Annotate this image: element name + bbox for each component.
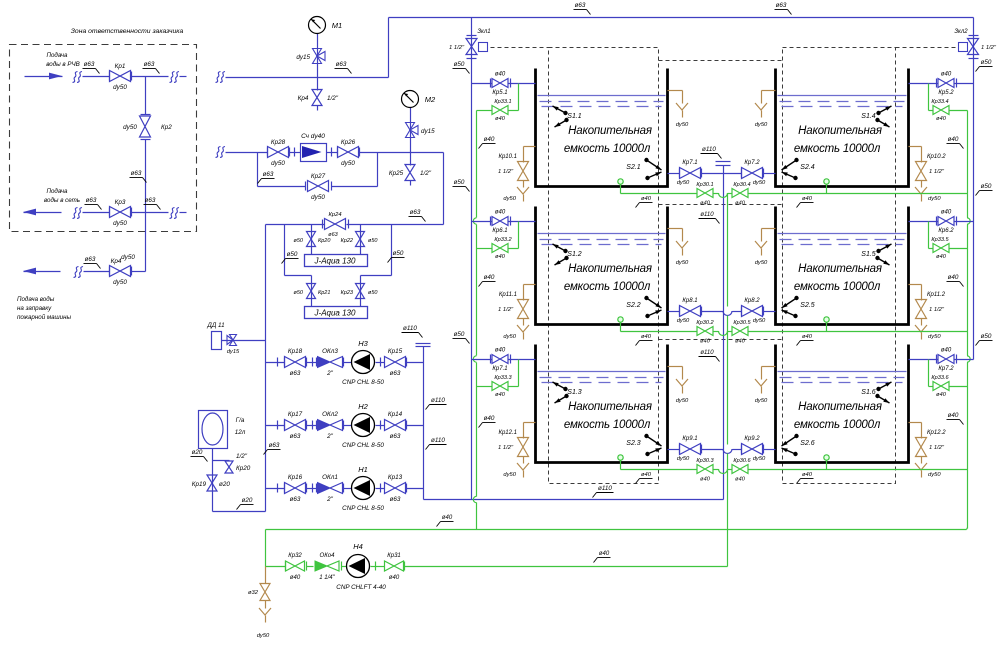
flange: [284, 358, 286, 367]
svg-text:S2.3: S2.3: [626, 440, 641, 447]
drain stub left Кр11.1: [524, 284, 536, 286]
valve Кр13: [385, 483, 406, 494]
flange: [312, 484, 314, 493]
valve Кр27: [308, 181, 329, 192]
wire bottom drain collector y529: [266, 529, 967, 531]
flex joint center riser: [716, 161, 731, 163]
svg-text:ø63: ø63: [84, 61, 95, 68]
svg-text:dy50: dy50: [755, 260, 768, 266]
wire stub: [410, 181, 412, 186]
wire drain row right part: [749, 469, 827, 471]
flow arrow fire truck: [24, 271, 61, 273]
wire to network: [83, 212, 110, 214]
valve Кр5.1: [492, 79, 508, 88]
valve Кр9.2: [742, 444, 763, 455]
svg-text:Кр8.2: Кр8.2: [744, 298, 760, 304]
flex joint: [416, 343, 431, 345]
svg-text:ø40: ø40: [735, 477, 746, 483]
wire: [523, 319, 525, 326]
dashed gap line row3: [659, 339, 783, 341]
wire lower drop right: [360, 276, 362, 307]
drain funnel left: [517, 325, 529, 332]
hop over feed row3: [967, 356, 970, 362]
svg-text:Кр7.1: Кр7.1: [682, 160, 697, 166]
svg-text:ø40: ø40: [599, 551, 610, 557]
svg-text:Кр19: Кр19: [192, 481, 207, 488]
svg-text:Накопительная: Накопительная: [798, 263, 882, 275]
svg-text:Кр17: Кр17: [288, 411, 303, 418]
flange: [763, 307, 765, 316]
svg-text:Кр4: Кр4: [111, 258, 122, 265]
valve Кр16: [285, 483, 306, 494]
flange: [131, 72, 133, 81]
wire feed left Кр6.1: [472, 221, 493, 223]
wire manifold y224: [266, 224, 325, 226]
manometer M2: [402, 91, 419, 108]
pump Н1: [352, 477, 375, 500]
wire right feed riser Ø50: [973, 18, 975, 360]
wire outlet drop: [620, 461, 622, 470]
wire riser to fire filling: [145, 213, 147, 272]
overflow funnel left: [676, 241, 688, 248]
svg-text:Кр13: Кр13: [388, 474, 403, 481]
svg-text:dy15: dy15: [421, 128, 435, 135]
check valve ОКл2: [318, 420, 331, 431]
flange: [763, 169, 765, 178]
wire: [290, 152, 301, 154]
svg-text:ø40: ø40: [936, 392, 947, 398]
filter Сч dy40: [301, 144, 327, 162]
valve Кр8.1: [680, 306, 701, 317]
flange: [936, 355, 938, 364]
flange: [131, 208, 133, 217]
flange: [322, 220, 324, 229]
svg-text:Кр1: Кр1: [115, 63, 126, 70]
valve Кр20: [307, 232, 316, 247]
svg-text:ø63: ø63: [131, 170, 142, 177]
wire filter row to manifold: [443, 153, 445, 225]
customer responsibility zone dashed box: [10, 45, 197, 232]
flange: [679, 445, 681, 454]
valve Кр30.5: [732, 327, 748, 336]
svg-text:ø110: ø110: [598, 485, 612, 492]
flange: [306, 421, 308, 430]
svg-text:ø50: ø50: [981, 59, 992, 66]
svg-text:Г/а: Г/а: [236, 417, 245, 424]
valve Кр25 drain: [405, 165, 415, 181]
svg-text:Накопительная: Накопительная: [568, 401, 652, 413]
valve Кр20 drain: [225, 461, 233, 473]
svg-text:ОКл2: ОКл2: [322, 411, 338, 418]
wire riser Кр2: [145, 77, 147, 115]
svg-text:dy50: dy50: [311, 194, 325, 201]
valve Кр30.2: [697, 327, 713, 336]
flow arrow to network: [24, 212, 62, 214]
flange: [289, 148, 291, 157]
svg-text:Кр33.3: Кр33.3: [494, 375, 512, 381]
dashed enclosure right tank column: [783, 48, 896, 484]
valve Кр3: [110, 207, 131, 218]
flange: [343, 358, 345, 367]
wire pump row Н3: [266, 362, 285, 364]
svg-text:S1.5: S1.5: [861, 251, 876, 258]
pump Н2: [352, 414, 375, 437]
hop over feed row2: [473, 218, 476, 224]
svg-text:S1.2: S1.2: [567, 251, 582, 258]
wire drain row right part: [749, 193, 827, 195]
wire drain row Кр30.2-Кр30.5: [621, 331, 698, 333]
float valve Зкл1: [466, 39, 477, 55]
wire: [265, 601, 267, 609]
valve Кр18: [285, 357, 306, 368]
svg-text:1 1/2": 1 1/2": [929, 169, 945, 175]
wire drain row Кр30.3-Кр30.6: [621, 469, 698, 471]
svg-text:Кр20: Кр20: [236, 465, 251, 472]
svg-text:dy50: dy50: [123, 124, 137, 131]
drain valve Кр12.1: [518, 438, 529, 457]
svg-text:Кр30.6: Кр30.6: [733, 458, 751, 464]
svg-text:ø63: ø63: [85, 256, 96, 263]
sensor valve dy15: [230, 335, 237, 346]
svg-text:ø40: ø40: [700, 201, 711, 207]
flange: [359, 148, 361, 157]
wire main riser to top: [388, 18, 390, 78]
valve Кр4 fire filling: [110, 266, 131, 277]
valve Кр28: [268, 147, 289, 158]
overflow stub left tank: [668, 90, 683, 92]
flange: [956, 79, 958, 88]
hop over blue center riser: [719, 469, 728, 474]
svg-text:ø63: ø63: [290, 370, 301, 377]
valve Кр7.1: [680, 168, 701, 179]
valve Кр31: [385, 561, 404, 571]
valve Кр19: [207, 475, 217, 491]
tank outlet circle right row3: [824, 455, 829, 460]
wire pump row Н2: [266, 425, 285, 427]
wire drain branch Кр33.1: [518, 84, 520, 111]
valve Кр22: [356, 232, 365, 247]
svg-text:dy50: dy50: [271, 160, 285, 167]
svg-text:Кр11.2: Кр11.2: [927, 292, 946, 298]
svg-text:Н2: Н2: [358, 402, 368, 411]
drain valve Кр11.2: [916, 300, 927, 319]
valve Кр9.1: [680, 444, 701, 455]
wire feed left Кр5.1: [472, 83, 493, 85]
svg-text:ø40: ø40: [484, 274, 495, 281]
svg-text:Кр30.2: Кр30.2: [696, 320, 714, 326]
svg-text:ø40: ø40: [484, 136, 495, 143]
valve Кр23: [356, 284, 365, 299]
svg-text:ø63: ø63: [390, 496, 401, 503]
svg-text:ø110: ø110: [702, 146, 716, 153]
hop over green center riser: [723, 449, 732, 454]
svg-text:ø63: ø63: [269, 442, 280, 449]
flange: [701, 445, 703, 454]
flange: [312, 358, 314, 367]
valve Кр26: [338, 147, 359, 158]
wire drain branch Кр33.6: [928, 360, 930, 387]
flange: [277, 358, 279, 367]
wire fire filling: [84, 271, 110, 273]
wire: [921, 319, 923, 326]
svg-text:Накопительная: Накопительная: [798, 401, 882, 413]
svg-text:dy50: dy50: [755, 398, 768, 404]
svg-text:ø40: ø40: [936, 116, 947, 122]
svg-text:ø20: ø20: [219, 481, 230, 488]
flange: [267, 148, 269, 157]
wire center drain riser green: [727, 194, 729, 307]
pipe break: [73, 72, 78, 83]
svg-text:Кр2: Кр2: [161, 124, 172, 131]
hop over blue center riser: [719, 331, 728, 336]
dashed enclosure link to Зкл1: [491, 47, 549, 49]
svg-text:dy50: dy50: [676, 260, 689, 266]
softener J-Aqua 130 lower: [305, 307, 368, 319]
svg-text:dy50: dy50: [113, 279, 127, 286]
drain valve Кр10.1: [518, 162, 529, 181]
valve Кр5.2: [938, 79, 954, 88]
svg-text:ø40: ø40: [735, 201, 746, 207]
svg-text:Кр12.1: Кр12.1: [498, 430, 517, 436]
svg-text:Кр24: Кр24: [328, 212, 341, 218]
wire drain branch Кр33.3: [518, 360, 520, 387]
svg-text:Кр7.1: Кр7.1: [492, 366, 507, 372]
check valve ОКо4: [315, 561, 327, 571]
svg-text:dy50: dy50: [677, 456, 690, 462]
svg-text:ø50: ø50: [368, 290, 378, 296]
svg-text:S1.6: S1.6: [861, 389, 876, 396]
svg-text:Кр30.5: Кр30.5: [733, 320, 751, 326]
svg-text:S2.1: S2.1: [626, 164, 641, 171]
svg-text:Кр5.2: Кр5.2: [938, 90, 954, 96]
svg-text:S2.4: S2.4: [800, 164, 815, 171]
flange: [701, 307, 703, 316]
flange: [109, 72, 111, 81]
svg-text:ø50: ø50: [393, 250, 404, 257]
wire transfer row Кр9.1-Кр9.2: [668, 449, 680, 451]
wire drain row to right riser: [827, 469, 968, 471]
svg-text:dy15: dy15: [296, 54, 310, 61]
svg-text:Подача: Подача: [46, 188, 68, 195]
svg-text:Кр9.2: Кр9.2: [744, 436, 760, 442]
drain stub left Кр10.1: [524, 146, 536, 148]
gauge valve dy15: [406, 123, 415, 138]
svg-text:ОКо4: ОКо4: [320, 553, 336, 559]
flange: [306, 358, 308, 367]
svg-text:dy50: dy50: [755, 122, 768, 128]
dashed gap line row1: [659, 60, 783, 62]
wire: [921, 181, 923, 188]
svg-text:Сч dy40: Сч dy40: [301, 133, 325, 140]
valve Кр33.4: [933, 106, 949, 115]
svg-text:1 1/2": 1 1/2": [498, 307, 514, 313]
flange: [331, 148, 333, 157]
flange: [406, 358, 408, 367]
wire feed right Кр7.2: [909, 359, 939, 361]
pipe break main inlet: [216, 72, 221, 83]
gauge valve dy15: [313, 49, 322, 64]
wire accumulator drop: [212, 449, 214, 512]
svg-text:ø40: ø40: [735, 339, 746, 345]
svg-text:dy50: dy50: [928, 196, 941, 202]
drain funnel right: [915, 463, 927, 470]
pump Н4: [347, 555, 370, 578]
svg-text:2": 2": [326, 370, 334, 377]
flange: [936, 217, 938, 226]
svg-text:ø63: ø63: [290, 433, 301, 440]
flange: [510, 217, 512, 226]
svg-text:ø63: ø63: [86, 197, 97, 204]
overflow stub left tank: [668, 228, 683, 230]
wire: [327, 152, 338, 154]
svg-text:Зона ответственности заказчика: Зона ответственности заказчика: [71, 28, 184, 35]
wire outer loop right: [391, 225, 393, 276]
svg-text:ø40: ø40: [941, 210, 952, 216]
water level lines: [538, 371, 666, 373]
storage tank S1.2: [536, 207, 668, 325]
svg-text:Кр20: Кр20: [318, 238, 331, 244]
svg-text:Кр30.1: Кр30.1: [696, 182, 713, 188]
svg-text:Кр7.2: Кр7.2: [938, 366, 954, 372]
svg-text:Кр32: Кр32: [288, 553, 302, 559]
svg-text:ø40: ø40: [641, 334, 652, 340]
check valve ОКл1: [318, 483, 331, 494]
pipe break: [170, 72, 175, 83]
svg-text:Кр18: Кр18: [288, 348, 303, 355]
valve Кр21: [307, 284, 316, 299]
svg-text:воды в РЧВ: воды в РЧВ: [46, 61, 80, 68]
svg-text:Кр5.1: Кр5.1: [492, 90, 507, 96]
wire left drain riser Ø40 green: [476, 111, 478, 218]
water level lines: [778, 371, 907, 373]
svg-text:емкость 10000л: емкость 10000л: [564, 281, 651, 293]
svg-text:Кр10.2: Кр10.2: [927, 154, 946, 160]
svg-text:Кр6.1: Кр6.1: [492, 228, 507, 234]
flange: [679, 169, 681, 178]
svg-text:1/2": 1/2": [236, 453, 248, 460]
svg-text:Зкл1: Зкл1: [477, 29, 490, 35]
wire accumulator to main: [213, 511, 266, 513]
wire supply RChV: [83, 76, 110, 78]
svg-text:ø40: ø40: [700, 477, 711, 483]
valve Кр8.2: [742, 306, 763, 317]
valve Кр30.4: [732, 189, 748, 198]
drain valve Кр11.1: [518, 300, 529, 319]
svg-text:S1.1: S1.1: [567, 113, 582, 120]
valve Кр32: [286, 561, 305, 571]
svg-text:dy50: dy50: [113, 220, 127, 227]
svg-text:Кр15: Кр15: [388, 348, 403, 355]
overflow stub left tank: [668, 366, 683, 368]
flange: [375, 562, 377, 571]
svg-text:ø40: ø40: [495, 210, 506, 216]
svg-text:на заправку: на заправку: [17, 305, 52, 312]
svg-text:dy50: dy50: [928, 334, 941, 340]
water level lines: [538, 95, 666, 97]
svg-text:Кр30.3: Кр30.3: [696, 458, 714, 464]
drain valve Кр10.2: [916, 162, 927, 181]
wire bypass bottom: [258, 186, 306, 188]
tank outlet circle right row2: [824, 317, 829, 322]
svg-text:Кр33.4: Кр33.4: [931, 99, 948, 105]
svg-text:Кр27: Кр27: [311, 173, 326, 180]
flange: [404, 562, 406, 571]
storage tank S1.1: [536, 69, 668, 187]
flange: [312, 421, 314, 430]
flange: [380, 358, 382, 367]
svg-text:dy50: dy50: [753, 456, 766, 462]
wire pump row Н1: [266, 488, 285, 490]
flange: [679, 307, 681, 316]
wire feed right Кр5.2: [909, 83, 939, 85]
svg-text:1/2": 1/2": [327, 95, 339, 102]
svg-text:Кр9.1: Кр9.1: [682, 436, 697, 442]
flange: [141, 139, 151, 141]
flange: [490, 355, 492, 364]
float valve Зкл2: [968, 39, 979, 55]
valve Кр30.1: [697, 189, 713, 198]
svg-text:Накопительная: Накопительная: [798, 125, 882, 137]
valve Кр7.2: [938, 355, 954, 364]
drain stub right Кр12.2: [909, 422, 922, 424]
flange: [284, 421, 286, 430]
wire left feed riser Ø50: [471, 18, 473, 500]
valve Кр33.5: [933, 244, 949, 253]
flange: [741, 307, 743, 316]
valve Кр7.2: [742, 168, 763, 179]
svg-text:ø50: ø50: [287, 251, 298, 258]
wire stub: [180, 76, 187, 78]
svg-text:емкость 10000л: емкость 10000л: [564, 143, 651, 155]
svg-text:Подача воды: Подача воды: [17, 296, 55, 303]
flange: [956, 355, 958, 364]
flange: [316, 421, 318, 430]
wire: [523, 457, 525, 464]
flange: [510, 79, 512, 88]
svg-text:ø63: ø63: [575, 2, 586, 9]
svg-text:Кр28: Кр28: [271, 139, 286, 146]
flange: [294, 148, 296, 157]
svg-text:dy50: dy50: [341, 160, 355, 167]
svg-text:ø40: ø40: [802, 334, 813, 340]
drain funnel right: [915, 325, 927, 332]
flange: [305, 182, 307, 191]
svg-text:12л: 12л: [235, 429, 246, 436]
flange: [969, 35, 979, 37]
pipe break filter row inlet: [216, 147, 221, 158]
dashed enclosure link to Зкл2: [896, 47, 957, 49]
flange: [109, 208, 111, 217]
flange: [969, 58, 979, 60]
flange: [406, 421, 408, 430]
flow arrow into RChV: [25, 76, 63, 78]
wire gauge M1 branch: [317, 34, 319, 91]
water level lines: [538, 233, 666, 235]
svg-text:dy50: dy50: [503, 472, 516, 478]
svg-text:Подача: Подача: [46, 52, 68, 59]
hop over feed row3: [473, 356, 476, 362]
svg-text:dy50: dy50: [121, 254, 135, 261]
svg-text:dy50: dy50: [113, 84, 127, 91]
valve Кр14: [385, 420, 406, 431]
check valve ОКл3: [318, 357, 331, 368]
tank outlet circle left row2: [618, 317, 623, 322]
svg-text:2": 2": [326, 496, 334, 503]
hop over feed row2: [967, 218, 970, 224]
flange: [109, 267, 111, 276]
softener J-Aqua 130 upper: [305, 255, 368, 267]
valve Кр15: [385, 357, 406, 368]
